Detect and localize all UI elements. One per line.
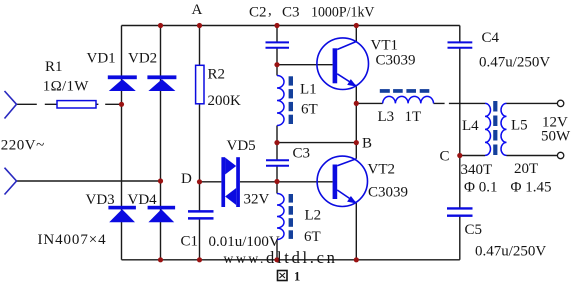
diode VD3 — [108, 206, 135, 222]
transformer primary L4 — [485, 103, 491, 155]
svg-text:R1: R1 — [45, 59, 63, 75]
svg-text:VD5: VD5 — [227, 138, 256, 154]
svg-text:C4: C4 — [482, 30, 500, 46]
svg-text:1Ω/1W: 1Ω/1W — [43, 79, 90, 95]
svg-text:IN4007×4: IN4007×4 — [38, 232, 107, 248]
wire L5 bottom to output terminal bottom — [507, 155, 558, 157]
svg-text:C1: C1 — [181, 234, 199, 250]
junction dot VT1 emitter — [354, 101, 359, 106]
svg-text:L1: L1 — [300, 82, 317, 98]
svg-text:200K: 200K — [208, 93, 242, 109]
wire VD2/VD4 branch — [160, 26, 162, 260]
svg-text:D: D — [181, 171, 192, 187]
svg-text:220V~: 220V~ — [1, 138, 45, 154]
diode VD2 — [147, 75, 176, 91]
diode VD4 — [148, 206, 176, 222]
wire top rail — [122, 25, 460, 27]
svg-text:C3: C3 — [282, 5, 300, 21]
wire C4/C5 right branch — [459, 26, 461, 260]
wire input 2 to VD2/VD4 junction — [17, 180, 161, 182]
svg-text:L4: L4 — [462, 118, 479, 134]
capacitor C4 — [448, 42, 473, 47]
svg-text:C5: C5 — [465, 222, 483, 238]
resistor R1 — [57, 101, 96, 108]
svg-text:L2: L2 — [305, 208, 322, 224]
svg-text:Φ 0.1: Φ 0.1 — [464, 180, 497, 196]
svg-text:C: C — [440, 149, 450, 165]
svg-text:R2: R2 — [208, 67, 226, 83]
input terminal chevron 1 — [5, 91, 17, 119]
output terminal top — [557, 100, 563, 106]
wire VT1 emitter to L3 — [356, 102, 382, 104]
inductor L2 — [277, 194, 284, 240]
svg-text:VD3: VD3 — [86, 192, 115, 208]
wire VT1/VT2 emitter-collector branch — [355, 26, 357, 260]
svg-text:0.47u/250V: 0.47u/250V — [475, 244, 546, 260]
svg-text:C3039: C3039 — [376, 53, 416, 69]
svg-text:0.47u/250V: 0.47u/250V — [479, 55, 550, 71]
wire node B row — [277, 142, 356, 144]
inductor L3 — [383, 96, 434, 103]
inductor L1 — [277, 76, 284, 126]
svg-text:50W: 50W — [541, 129, 571, 145]
svg-text:32V: 32V — [244, 192, 270, 208]
resistor R2 — [196, 65, 204, 104]
svg-text:VD2: VD2 — [128, 51, 157, 67]
transistor VT1 — [317, 38, 369, 90]
junction dot R1/bridge — [119, 102, 124, 107]
diac VD5 — [221, 157, 240, 207]
svg-text:C3: C3 — [293, 146, 311, 162]
output terminal bottom — [557, 152, 563, 158]
svg-text:1T: 1T — [405, 109, 422, 125]
svg-text:VD4: VD4 — [128, 192, 158, 208]
svg-text:6T: 6T — [301, 102, 318, 118]
junction dots bottom rail — [158, 257, 163, 262]
capacitor C1 — [188, 211, 214, 218]
junction dot L1/C3/B row — [274, 140, 279, 145]
svg-text:1000P/1kV: 1000P/1kV — [311, 5, 375, 21]
diode VD1 — [108, 75, 137, 91]
svg-text:6T: 6T — [304, 229, 321, 245]
core of L1 — [289, 76, 293, 124]
capacitor C3 — [266, 160, 289, 165]
junction dot input2/bridge — [158, 178, 163, 183]
svg-text:20T: 20T — [514, 161, 538, 177]
wire input 1 to R1 to bridge — [17, 103, 122, 105]
node D dot — [197, 179, 202, 184]
wire left vertical VD1/VD3 branch — [121, 26, 123, 260]
transformer secondary L5 — [501, 103, 507, 155]
node B dot — [354, 140, 359, 145]
junction dots top rail — [158, 23, 163, 28]
capacitor C5 — [447, 208, 473, 215]
svg-text:L3: L3 — [378, 109, 395, 125]
wire node A to R2 to node D to C1 branch — [199, 26, 201, 260]
node C dot — [457, 153, 462, 158]
svg-text:L5: L5 — [511, 118, 528, 134]
transformer core L4/L5 — [493, 101, 497, 155]
core of L2 — [289, 194, 293, 239]
junction dot C3/VD5/L2 — [274, 179, 279, 184]
svg-text:A: A — [192, 2, 203, 18]
wire node C to L4 bottom — [460, 155, 485, 157]
wire C2/L1/C3/L2 branch — [276, 26, 278, 260]
svg-text:Φ 1.45: Φ 1.45 — [511, 180, 552, 196]
svg-text:1: 1 — [294, 270, 300, 284]
svg-text:C3039: C3039 — [368, 185, 408, 201]
input terminal chevron 2 — [5, 168, 17, 195]
junction dot C2/L1/VT1 base — [274, 62, 279, 67]
svg-text:B: B — [362, 136, 372, 152]
svg-text:www.dltdl.cn: www.dltdl.cn — [224, 248, 338, 267]
svg-text:C2: C2 — [249, 5, 267, 21]
wire L5 to output terminal top — [507, 102, 558, 104]
wire bottom rail — [122, 259, 460, 261]
figure caption glyph — [278, 271, 288, 281]
core of L3 — [380, 89, 430, 93]
capacitor C2 — [266, 42, 290, 47]
svg-text:,: , — [268, 3, 272, 19]
wire L3 to L4 — [434, 102, 486, 104]
svg-text:VT2: VT2 — [368, 162, 396, 178]
svg-text:340T: 340T — [461, 162, 493, 178]
transistor VT2 — [317, 156, 367, 206]
svg-text:VT1: VT1 — [371, 38, 399, 54]
wire VT1 base — [277, 64, 333, 66]
wire node D to VD5 to VT2 base — [200, 181, 333, 183]
svg-text:VD1: VD1 — [87, 51, 116, 67]
